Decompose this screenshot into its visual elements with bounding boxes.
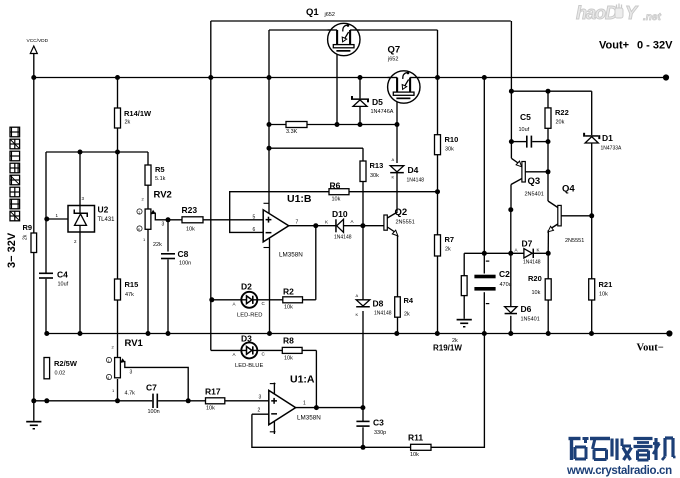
node 3.3K row left <box>267 122 272 127</box>
wire row down to R22 <box>547 91 549 108</box>
svg-text:1N4733A: 1N4733A <box>601 146 623 152</box>
wire corner down into R13 <box>362 148 364 161</box>
node C4 / R2-5W at mid bus <box>44 331 49 336</box>
resistor R8 10k <box>282 336 302 362</box>
svg-text:10k: 10k <box>599 292 608 298</box>
svg-text:K: K <box>325 220 328 225</box>
node Q3 base / Q4 collector <box>546 169 551 174</box>
wire riser R8 to U1:A output node <box>315 350 317 407</box>
wire U1:A pin2 lead <box>252 413 269 415</box>
node C5 left <box>509 139 514 144</box>
svg-text:A: A <box>233 302 236 307</box>
svg-text:2k: 2k <box>125 120 131 126</box>
resistor R20 10k <box>528 274 551 300</box>
wire ground stem bottom-left <box>33 401 35 421</box>
wire bus to R10 <box>437 78 439 135</box>
svg-text:A: A <box>515 248 518 253</box>
wire R21 to mid bus <box>591 300 593 334</box>
resistor R10 30k <box>435 135 459 155</box>
resistor 3.3K <box>286 122 307 136</box>
wire top loop (y=21) <box>211 20 511 22</box>
wire R4 to mid bus <box>397 317 399 333</box>
svg-text:LM358N: LM358N <box>279 252 303 259</box>
svg-text:R13: R13 <box>370 161 384 170</box>
node D6 top / D7 anode <box>508 251 513 256</box>
svg-text:LED-RED: LED-RED <box>237 313 262 319</box>
svg-text:10k: 10k <box>206 406 215 412</box>
wire U1:A feedback row to C3 node <box>252 414 363 447</box>
wire 3.3K row left <box>269 124 286 126</box>
svg-text:1: 1 <box>303 401 306 407</box>
op-amp U1:A LM358N <box>258 374 322 425</box>
svg-text:R21: R21 <box>599 280 613 289</box>
op-amp U1:B LM358N <box>253 193 312 259</box>
wire U2 pin1 link <box>46 218 68 220</box>
svg-text:10k: 10k <box>186 227 195 233</box>
svg-text:R17: R17 <box>205 387 221 397</box>
wire C5 right lead <box>532 141 548 143</box>
wire Q3 base node down to Q4 collector <box>547 172 549 201</box>
svg-text:U2: U2 <box>98 205 109 215</box>
node D2 anode row <box>209 297 214 302</box>
svg-text:1N4148: 1N4148 <box>407 178 425 184</box>
node U2 anode at mid bus <box>78 331 83 336</box>
wire output node down to C3 <box>362 408 364 422</box>
svg-text:20k: 20k <box>556 120 565 126</box>
svg-text:R14/1W: R14/1W <box>124 109 152 118</box>
svg-text:K: K <box>392 175 395 180</box>
node C3 bottom on feedback row <box>361 445 366 450</box>
wire RV1 wiper to bottom-bus node <box>122 362 189 401</box>
resistor R23 10k <box>182 205 204 233</box>
svg-text:Q3: Q3 <box>528 176 541 187</box>
node Q3 collector / D6 <box>508 207 513 212</box>
svg-text:2k: 2k <box>445 247 451 253</box>
svg-text:R6: R6 <box>330 180 341 190</box>
svg-text:4.7k: 4.7k <box>125 391 136 397</box>
svg-text:j652: j652 <box>387 57 398 63</box>
svg-text:R11: R11 <box>408 433 423 443</box>
wire R23 node down to C8 <box>167 220 169 252</box>
terminal Vout- <box>666 330 672 336</box>
node D6 at mid bus <box>508 331 513 336</box>
watermark url www.crystalradio.cn <box>566 465 672 477</box>
wire C4 bottom to mid bus <box>45 279 47 334</box>
svg-text:330p: 330p <box>374 430 386 436</box>
svg-text:C7: C7 <box>146 383 157 393</box>
svg-text:R2: R2 <box>283 287 294 297</box>
wire U1:A V+ stub <box>273 383 275 394</box>
svg-text:3: 3 <box>162 222 165 228</box>
diode D5 1N4746A zener <box>351 96 394 115</box>
wire top row down to R15 <box>117 152 119 279</box>
svg-text:30k: 30k <box>445 147 454 153</box>
node R23 / C8 <box>166 217 171 222</box>
svg-text:D8: D8 <box>373 299 384 309</box>
wire gate node down to D4 <box>396 125 398 164</box>
wire C3 bottom to feedback row <box>362 427 364 447</box>
node C2 top on D7 row <box>482 251 487 256</box>
potentiometer RV2 22k <box>137 190 172 249</box>
wire D3 row left <box>211 349 241 351</box>
wire R22 to Q3 base node <box>547 128 549 172</box>
svg-text:A: A <box>351 219 354 224</box>
node U2 cathode row <box>78 150 83 155</box>
svg-text:R10: R10 <box>445 135 459 144</box>
svg-text:R8: R8 <box>283 336 294 346</box>
wire vertical x=210.8 from top loop down to LED D3 row <box>210 21 212 350</box>
node RV1 bottom at bottom bus <box>115 398 120 403</box>
node R13 row left <box>267 146 272 151</box>
resistor R9 2k <box>23 223 37 253</box>
wire U2 top row (y=152) <box>46 151 148 153</box>
node R21 at mid bus <box>589 331 594 336</box>
svg-text:D7: D7 <box>522 239 533 249</box>
ground symbol bottom-left <box>26 421 41 430</box>
svg-text:VCC/VDD: VCC/VDD <box>27 38 49 44</box>
svg-text:Vout+: Vout+ <box>599 40 629 52</box>
svg-text:1N5401: 1N5401 <box>521 317 540 323</box>
wire U2 cathode (pin3) from top row <box>79 152 81 206</box>
svg-text:Y: Y <box>625 3 639 23</box>
svg-text:100n: 100n <box>148 409 160 415</box>
svg-text:D1: D1 <box>602 133 613 143</box>
pin 4 tick U1:B <box>264 247 270 249</box>
wire U1:B output to D10 <box>289 225 337 227</box>
pin tick U1:A top <box>270 383 276 385</box>
wire main V+ bus left segment (y=77.5) <box>34 77 397 79</box>
svg-text:0.02: 0.02 <box>55 371 66 377</box>
wire D7 row down to R19 body <box>463 253 465 275</box>
node Q4 emitter / D7 cathode / R20 <box>546 251 551 256</box>
wire U1:B V- stub to mid bus <box>269 239 271 334</box>
svg-text:RV1: RV1 <box>125 338 144 349</box>
LED D3 LED-BLUE <box>233 334 266 370</box>
resistor R13 30k <box>360 161 383 182</box>
svg-text:2k: 2k <box>23 234 29 240</box>
wire R7 to mid bus <box>437 256 439 334</box>
wire bus down to D7 row (x=484.3) <box>483 78 485 254</box>
node Q7 gate / D4 <box>395 122 400 127</box>
svg-text:2N5551: 2N5551 <box>565 238 584 244</box>
wire R11 to x=484 riser up to mid bus <box>431 334 484 448</box>
wire 3.3K to Q1/Q7 gates and D5 <box>307 124 397 126</box>
wire U1:A output row <box>296 407 363 409</box>
wire left rail x=33.8 lower (R9 to bottom bus) <box>33 253 35 401</box>
wire Q3 collector down <box>510 185 512 210</box>
node upper right row left end <box>509 89 514 94</box>
watermark crystalradio logo CJK + url <box>569 438 676 460</box>
node U1:B V- at mid bus <box>267 331 272 336</box>
ground symbol near C2 / R19 <box>457 319 472 328</box>
svg-text:10k: 10k <box>332 197 341 203</box>
svg-text:C2: C2 <box>499 269 510 279</box>
title text 3-32V stepless adjustable switching power supply (vertical) <box>6 127 20 268</box>
wire D3 to R8 <box>258 349 283 351</box>
svg-text:22k: 22k <box>153 242 162 248</box>
svg-text:3− 32V: 3− 32V <box>6 232 18 268</box>
svg-text:5: 5 <box>253 215 256 221</box>
resistor R2 10k <box>283 287 303 311</box>
svg-text:47k: 47k <box>125 292 134 298</box>
svg-text:10k: 10k <box>284 356 293 362</box>
capacitor C7 100n <box>146 383 160 416</box>
potentiometer RV1 4.7k <box>106 338 143 397</box>
node U1:B output <box>313 223 318 228</box>
svg-text:R9: R9 <box>23 223 33 232</box>
node left rail at bottom bus <box>31 398 36 403</box>
wire D6 anode to mid bus <box>510 316 512 334</box>
node C5 right / R22 bottom <box>546 139 551 144</box>
svg-text:R4: R4 <box>404 296 414 305</box>
svg-text:Q7: Q7 <box>388 45 401 56</box>
svg-text:1N4148: 1N4148 <box>374 311 392 317</box>
svg-text:0 - 32V: 0 - 32V <box>637 40 673 52</box>
wire top row corner down to R5 <box>147 152 149 165</box>
wire vertical x=511.4 (top loop down to Q3 emitter) <box>510 21 512 158</box>
svg-text:C3: C3 <box>373 418 384 428</box>
wire riser R2 to U1:B output node <box>315 226 317 300</box>
svg-text:LED-BLUE: LED-BLUE <box>235 363 263 369</box>
wire main V+ bus right segment (y=77.5) <box>410 77 667 79</box>
node top-loop at bus <box>208 75 213 80</box>
resistor R21 10k <box>589 279 613 300</box>
svg-text:2: 2 <box>258 408 261 414</box>
resistor R5 5.1k <box>145 165 166 185</box>
transistor Q2 2N5551 NPN <box>384 207 415 236</box>
svg-text:R5: R5 <box>155 165 165 174</box>
svg-text:R19/1W: R19/1W <box>433 344 462 353</box>
pin 8 tick U1:B <box>264 202 270 204</box>
node C3 top / D8 riser at output row <box>360 405 365 410</box>
svg-text:www.crystalradio.cn: www.crystalradio.cn <box>566 465 672 477</box>
svg-text:RV2: RV2 <box>154 190 172 201</box>
wire vertical x=269 (Q1 source to bus, 3.3K row, R13 row, U1:B V+ stub) <box>268 30 270 213</box>
wire C2 bottom to mid bus <box>483 292 485 333</box>
wire RV1 bottom to bottom bus <box>117 379 119 401</box>
svg-text:LM358N: LM358N <box>297 415 321 422</box>
wire C3 node to R11 <box>363 446 411 448</box>
capacitor C4 10uf <box>39 270 69 288</box>
MOSFET Q7 j652 <box>387 45 420 104</box>
svg-text:D6: D6 <box>521 304 532 314</box>
svg-text:Q4: Q4 <box>562 184 575 195</box>
svg-text:D5: D5 <box>372 97 383 107</box>
svg-text:R23: R23 <box>182 205 198 215</box>
node RV2 at mid bus <box>146 331 151 336</box>
resistor R6 10k <box>329 180 349 202</box>
wire U1:B pin6 feedback loop to R6 <box>230 192 329 233</box>
wire x=46 down to C4 <box>45 152 47 273</box>
svg-text:4: 4 <box>107 376 109 380</box>
node R20 at mid bus <box>546 331 551 336</box>
svg-text:haoD: haoD <box>576 3 618 23</box>
svg-text:10k: 10k <box>284 305 293 311</box>
svg-text:TL431: TL431 <box>98 217 116 223</box>
node U2 pin1 <box>44 217 49 222</box>
node R22 top <box>546 89 551 94</box>
resistor R2/5W 0.02 shunt <box>44 358 78 379</box>
svg-text:3: 3 <box>259 395 262 401</box>
svg-text:U1:A: U1:A <box>290 374 315 386</box>
resistor R14 2k 1W <box>115 108 153 128</box>
diode D7 1N4148 (points right) <box>515 239 541 266</box>
wire D8 cathode down to U1:A output row (crosses mid bus, no joint) <box>362 311 364 408</box>
node Q4 base / D1 <box>589 213 594 218</box>
transistor Q3 2N5401 PNP <box>511 158 544 197</box>
svg-text:C8: C8 <box>178 249 189 259</box>
svg-text:C5: C5 <box>520 112 531 122</box>
wire R13 top row (y=148.2) <box>269 147 363 149</box>
svg-text:10uf: 10uf <box>58 282 69 288</box>
svg-text:U1:B: U1:B <box>287 193 312 205</box>
svg-text:10k: 10k <box>532 290 541 296</box>
capacitor C8 100n <box>161 249 191 267</box>
diode D1 1N4733A zener <box>583 133 622 152</box>
svg-text:D10: D10 <box>332 209 348 219</box>
wire R8 to riser <box>302 349 316 351</box>
label Vout+ 0 - 32V <box>599 40 673 52</box>
resistor R17 10k <box>205 387 225 412</box>
terminal Vout+ <box>663 74 669 80</box>
svg-text:D4: D4 <box>408 165 419 175</box>
wire D4 cathode to Q2 collector <box>396 173 398 212</box>
wire C5 left lead <box>511 141 526 143</box>
wire Q7 gate lead down <box>396 99 398 125</box>
resistor R15 47k <box>115 279 139 300</box>
svg-text:1: 1 <box>138 211 140 215</box>
wire D7 node down to R20 <box>547 253 549 278</box>
svg-text:3: 3 <box>130 370 133 376</box>
wire C8 bottom to mid bus <box>167 260 169 334</box>
svg-text:1: 1 <box>108 359 110 363</box>
node R6 right / R10 <box>435 189 440 194</box>
wire Q1 gate lead down to 3.3K row <box>336 52 338 125</box>
wire R20 to mid bus <box>547 300 549 334</box>
svg-text:2N5401: 2N5401 <box>525 192 544 198</box>
wire Q3 collector node down to D6 <box>510 210 512 307</box>
wire Q2 emitter to R4 <box>397 236 399 297</box>
svg-text:R7: R7 <box>445 235 455 244</box>
wire Q4 base to D1 column <box>561 215 592 217</box>
node R4 at mid bus <box>394 331 399 336</box>
wire D1 anode down through Q4 base node to R21 <box>591 142 593 279</box>
svg-text:K: K <box>356 312 359 317</box>
wire Q1 source link (y=30 left) <box>269 29 337 31</box>
resistor R11 10k <box>408 433 431 459</box>
wire RV2 bottom to mid bus <box>147 229 149 333</box>
svg-text:j652: j652 <box>324 12 335 18</box>
wire R13 bottom through output node to D8 (crosses R6 row) <box>362 182 364 300</box>
svg-text:100n: 100n <box>179 261 191 267</box>
node Q1 source at bus <box>267 75 272 80</box>
node R14 top <box>115 75 120 80</box>
wire RV2 wiper to R23 <box>152 213 182 220</box>
wire D7 cathode to Q4 emitter node <box>534 252 548 254</box>
node Q1 drain / R10 at bus <box>435 75 440 80</box>
svg-text:A: A <box>356 293 359 298</box>
svg-text:Q2: Q2 <box>395 207 408 218</box>
svg-text:30k: 30k <box>370 173 379 179</box>
wire bottom bus right of C7 to U1:A pin3 <box>158 400 269 402</box>
wire R19 to local ground <box>463 296 465 319</box>
power flag VCC/VDD <box>27 38 49 54</box>
resistor R4 2k <box>395 296 414 318</box>
svg-text:Vout−: Vout− <box>637 343 664 354</box>
wire Q1 drain down to bus <box>437 30 439 78</box>
wire R23 to U1:B pin5 <box>203 219 263 221</box>
U2 TL431 shunt regulator <box>56 196 116 244</box>
node RV1 wiper / C7 / R17 <box>186 398 191 403</box>
svg-text:1N4148: 1N4148 <box>334 235 352 241</box>
node R2-5W at bottom bus <box>44 398 49 403</box>
node C8 at mid bus <box>166 331 171 336</box>
svg-text:6: 6 <box>253 227 256 233</box>
capacitor C3 330p <box>356 418 386 437</box>
transistor Q4 2N5551 NPN <box>548 184 584 245</box>
node C2/R11 riser at mid bus <box>482 331 487 336</box>
wire R15 to RV1 (crosses mid bus, no joint) <box>117 300 119 358</box>
svg-text:10k: 10k <box>410 452 419 458</box>
svg-text:D3: D3 <box>241 334 252 344</box>
wire mid bus (y=333.5) <box>46 333 670 335</box>
node VCC at bus <box>31 75 36 80</box>
svg-text:1N4148: 1N4148 <box>523 260 541 266</box>
wire U2 anode (pin2) to mid bus <box>79 232 81 334</box>
diode D6 1N5401 <box>505 304 540 323</box>
resistor R7 2k <box>435 235 455 256</box>
wire D7 row to C2 top <box>483 253 485 273</box>
svg-text:4: 4 <box>138 228 140 232</box>
node R14/R15 row <box>115 150 120 155</box>
wire bottom bus left of C7 (y=400.8) <box>34 400 152 402</box>
svg-text:.net: .net <box>643 12 661 23</box>
wire R10 to R7 through R6 node <box>437 155 439 235</box>
node Q1 gate <box>335 122 340 127</box>
svg-text:A: A <box>233 352 236 357</box>
node D5 anode <box>358 122 363 127</box>
wire row corner down to D1 cathode <box>591 91 593 135</box>
svg-text:R15: R15 <box>125 280 139 289</box>
svg-text:470u: 470u <box>500 282 512 288</box>
wire R6 to R10/R7 column <box>349 191 438 193</box>
diode D10 1N4148 (points left) <box>325 209 354 241</box>
watermark haoDIY.net (light gray logo) <box>576 3 661 23</box>
node D5 at bus <box>358 75 363 80</box>
diode D8 1N4148 <box>356 293 392 317</box>
node R7 at mid bus <box>435 331 440 336</box>
wire upper right row (y=91.2) <box>511 90 591 92</box>
svg-text:5.1k: 5.1k <box>155 176 166 182</box>
svg-text:A: A <box>392 157 395 162</box>
wire Q4 emitter down to D7 node <box>547 230 549 253</box>
svg-text:R20: R20 <box>528 274 542 283</box>
svg-text:2N5551: 2N5551 <box>396 220 415 226</box>
resistor R19 2k 1W (body near C2 ground, label floats at mid bus) <box>433 276 467 353</box>
pin tick U1:A bottom <box>270 431 276 433</box>
wire D2 row left <box>211 299 241 301</box>
wire D5 anode to 3.3K row <box>359 105 361 125</box>
wire R5 to RV2 <box>147 185 149 209</box>
resistor R22 20k <box>545 108 569 128</box>
label Vout- <box>637 343 664 354</box>
svg-text:Q1: Q1 <box>306 7 319 18</box>
svg-text:R2/5W: R2/5W <box>54 359 78 368</box>
svg-text:D2: D2 <box>241 282 252 292</box>
svg-text:10uf: 10uf <box>519 127 530 133</box>
MOSFET Q1 j652 <box>306 7 360 56</box>
wire VCC arrow stem <box>33 54 35 78</box>
